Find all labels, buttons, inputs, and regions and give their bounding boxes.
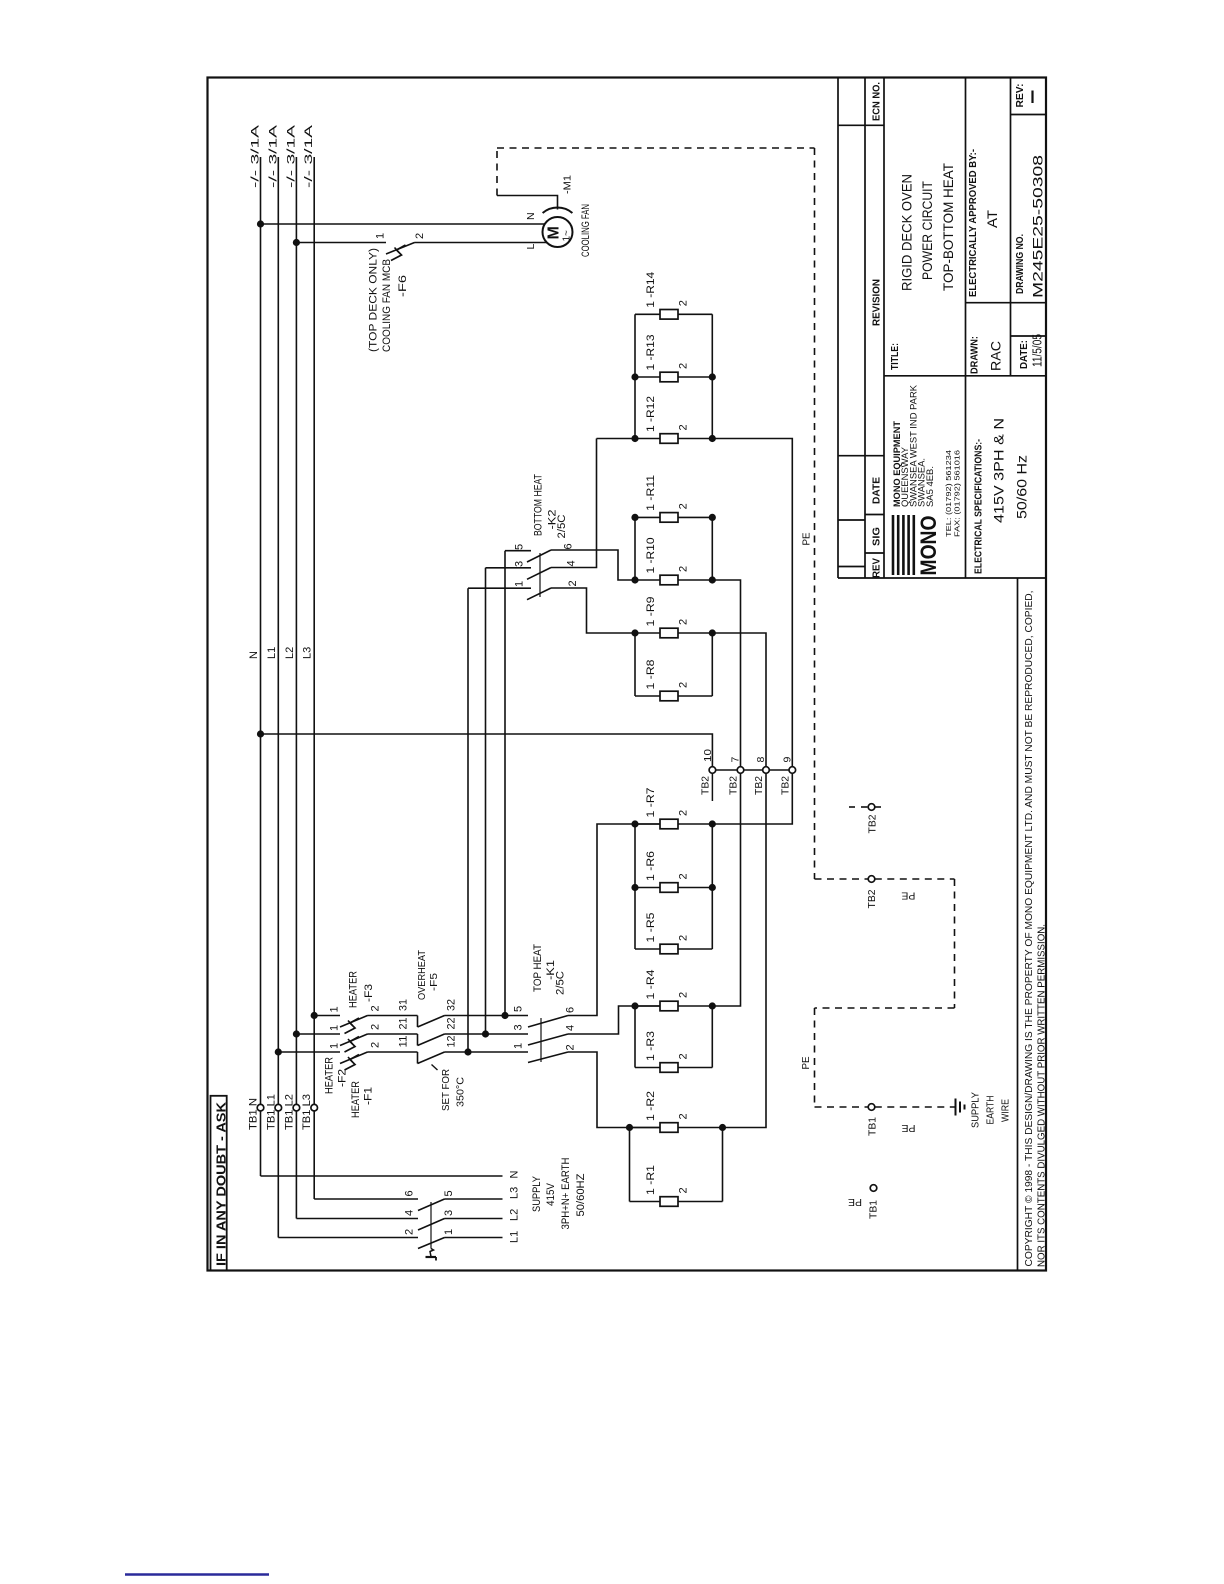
junction on N for fan	[257, 220, 264, 227]
F5 set-point leader line	[432, 1065, 438, 1071]
svg-text:2: 2	[567, 580, 579, 586]
K2 blade 3-4	[527, 568, 551, 580]
wire MCB F6 to fan	[415, 242, 547, 244]
svg-text:31: 31	[398, 999, 410, 1011]
svg-text:1: 1	[329, 1025, 341, 1031]
terminal TB2 7	[737, 767, 744, 774]
wire K1 2 to R2 bank	[568, 1052, 660, 1128]
MONO logo stripes	[892, 515, 895, 575]
wire R5-R7 right rail	[711, 824, 713, 949]
svg-text:2: 2	[370, 1005, 382, 1011]
wire L3 to isolator	[314, 1198, 418, 1200]
wire K2 2 to R9 bank	[551, 588, 635, 633]
svg-text:1 -R11: 1 -R11	[645, 475, 657, 511]
wire R10 bank output to TB2 7	[712, 580, 740, 767]
wire MCB F3 input	[314, 1015, 340, 1017]
drawing-no/date divider	[1011, 335, 1047, 337]
svg-text:9: 9	[782, 757, 794, 763]
svg-text:2: 2	[370, 1042, 382, 1048]
wire R12-R14 left rail	[634, 314, 636, 438]
svg-text:2: 2	[678, 810, 690, 816]
svg-text:3: 3	[513, 1024, 525, 1030]
overheat F5 pole step 11	[417, 1052, 419, 1064]
wire R7 bank output to TB2 9	[712, 773, 792, 824]
MCB F6 blade	[386, 243, 415, 255]
svg-text:1 -R10: 1 -R10	[645, 538, 657, 574]
terminal TB1 L1	[275, 1104, 282, 1111]
svg-text:TB1: TB1	[868, 1200, 880, 1219]
svg-text:M: M	[546, 226, 563, 239]
resistor R5	[660, 944, 678, 954]
svg-text:4: 4	[404, 1210, 416, 1216]
title block left edge	[837, 78, 839, 579]
svg-text:12: 12	[446, 1036, 458, 1048]
junction R6 left	[631, 884, 638, 891]
svg-text:HEATER: HEATER	[350, 1081, 362, 1118]
junction N to TB2 10	[257, 730, 264, 737]
title/spec column divider	[965, 78, 967, 579]
svg-text:L: L	[525, 244, 537, 250]
wire R1 row	[630, 1201, 661, 1203]
overheat F5 blade 21-22	[418, 1034, 445, 1046]
svg-text:EARTH: EARTH	[985, 1096, 997, 1125]
svg-text:N: N	[248, 651, 260, 659]
junction R12 right	[709, 435, 716, 442]
svg-text:PE: PE	[801, 533, 813, 546]
svg-text:-F3: -F3	[363, 984, 375, 1002]
svg-text:2: 2	[370, 1024, 382, 1030]
MCB F1 blade	[340, 1052, 368, 1064]
resistor R11	[660, 513, 678, 523]
revision row tick 1	[838, 455, 884, 457]
MCB F3 actuator symbol	[345, 1018, 360, 1034]
overheat F5 blade 11-12	[418, 1052, 445, 1064]
svg-text:ELECTRICAL SPECIFICATIONS:-: ELECTRICAL SPECIFICATIONS:-	[973, 439, 985, 574]
svg-text:TB1 L2: TB1 L2	[283, 1094, 295, 1130]
junction tap to K2 3	[482, 1030, 489, 1037]
contactor K2 pole 3 wire	[486, 567, 532, 569]
PE dashed right drop	[814, 148, 816, 879]
svg-text:11/5/05: 11/5/05	[1030, 334, 1045, 367]
svg-text:5: 5	[513, 1006, 525, 1012]
wire supply line L2	[295, 157, 297, 1219]
svg-text:SET FOR: SET FOR	[440, 1069, 452, 1111]
wire R2 bank output to TB2 8	[723, 773, 767, 1127]
junction R2 right	[719, 1124, 726, 1131]
wire neutral run to TB2 10	[261, 734, 713, 767]
svg-text:32: 32	[446, 999, 458, 1011]
svg-text:10: 10	[702, 749, 714, 762]
junction MCB F2 input	[293, 1030, 300, 1037]
title block bottom line	[838, 577, 1046, 579]
svg-text:-F6: -F6	[397, 275, 409, 297]
wire F5 22 to K1 3	[445, 1033, 529, 1035]
junction R10 left	[631, 576, 638, 583]
svg-text:2: 2	[678, 424, 690, 430]
terminal TB2 8	[763, 767, 770, 774]
svg-text:1 -R4: 1 -R4	[645, 970, 657, 1000]
svg-text:1 -R6: 1 -R6	[645, 851, 657, 881]
wire R10-R11 right rail	[711, 517, 713, 580]
junction R12 left	[631, 435, 638, 442]
wire MCB F3 output	[368, 1015, 418, 1017]
junction R4 right	[709, 1002, 716, 1009]
svg-text:-F2: -F2	[337, 1069, 349, 1087]
svg-text:3: 3	[443, 1210, 455, 1216]
svg-text:4: 4	[565, 1025, 577, 1031]
wire R12 bank output to TB2 9	[597, 438, 636, 440]
resistor R12	[660, 434, 678, 444]
svg-text:3PH+N+ EARTH: 3PH+N+ EARTH	[560, 1157, 572, 1229]
junction R13 left	[631, 373, 638, 380]
wire R14 row	[635, 313, 660, 315]
isolator mechanical link	[430, 1202, 432, 1249]
floating terminal TB2 PE stub	[849, 806, 855, 808]
svg-text:HEATER: HEATER	[324, 1057, 336, 1094]
isolator handle	[430, 1249, 434, 1257]
wire R1-R2 right rail	[722, 1128, 724, 1202]
isolator blade 2-1	[418, 1238, 445, 1249]
revision row tick 3	[838, 566, 865, 568]
MCB F1 actuator symbol	[345, 1055, 360, 1071]
svg-text:DATE:: DATE:	[1018, 340, 1030, 369]
wire R10-R11 left rail	[634, 517, 636, 580]
svg-text:N: N	[509, 1171, 521, 1179]
PE dashed down segment	[954, 879, 956, 1008]
PE dashed to supply earth	[875, 1106, 956, 1108]
svg-text:ELECTRICALLY APPROVED BY:-: ELECTRICALLY APPROVED BY:-	[967, 149, 979, 297]
isolator supply wire 5	[445, 1198, 503, 1200]
svg-text:POWER CIRCUIT: POWER CIRCUIT	[919, 181, 935, 280]
resistor R8	[660, 691, 678, 701]
junction R11 right	[709, 514, 716, 521]
junction tap to K2 5	[501, 1012, 508, 1019]
svg-text:2: 2	[678, 300, 690, 306]
svg-text:2/5C: 2/5C	[556, 514, 568, 538]
wire MCB F2 input	[296, 1033, 340, 1035]
overheat F5 pole step 21	[417, 1034, 419, 1046]
svg-text:L1: L1	[509, 1231, 521, 1243]
IF IN ANY DOUBT box	[211, 1096, 227, 1271]
svg-text:2: 2	[678, 1113, 690, 1119]
svg-text:2/5C: 2/5C	[555, 971, 567, 995]
overheat F5 blade 31-32	[418, 1016, 445, 1028]
K2 blade 1-2	[527, 588, 551, 600]
svg-text:REV:: REV:	[1014, 84, 1026, 108]
svg-text:DRAWING NO.: DRAWING NO.	[1014, 234, 1026, 294]
resistor R6	[660, 883, 678, 893]
PE dashed to TB1 PE terminal	[815, 1106, 869, 1108]
svg-text:2: 2	[414, 233, 426, 239]
svg-text:1 -R2: 1 -R2	[645, 1091, 657, 1121]
svg-text:4: 4	[566, 560, 578, 566]
svg-text:COOLING FAN: COOLING FAN	[580, 204, 592, 257]
svg-text:L1: L1	[266, 647, 278, 659]
svg-text:HEATER: HEATER	[348, 971, 360, 1008]
resistor R14	[660, 310, 678, 320]
isolator supply wire 1	[445, 1237, 503, 1239]
svg-text:COOLING FAN MCB: COOLING FAN MCB	[381, 259, 393, 352]
wire R3-R4 right rail	[711, 1006, 713, 1068]
resistor R9	[660, 628, 678, 638]
svg-text:1: 1	[329, 1043, 341, 1049]
svg-text:L3: L3	[302, 647, 314, 659]
PE dashed to TB2 PE terminal	[815, 878, 869, 880]
svg-text:SIG: SIG	[871, 527, 883, 546]
svg-text:L3: L3	[509, 1187, 521, 1199]
wire fan neutral	[261, 223, 546, 225]
revision row tick 2	[838, 519, 865, 521]
svg-text:TB2: TB2	[866, 889, 878, 908]
blue artifact line bottom of page	[125, 1573, 269, 1575]
svg-text:1: 1	[443, 1229, 455, 1235]
svg-text:N: N	[525, 212, 537, 220]
svg-text:1: 1	[513, 1043, 525, 1049]
svg-text:WIRE: WIRE	[1000, 1099, 1012, 1122]
overheat F5 pole step 31	[417, 1016, 419, 1028]
MCB F3 blade	[340, 1016, 368, 1028]
wire R5 row	[635, 948, 660, 950]
isolator supply wire 3	[445, 1218, 503, 1220]
svg-text:-M1: -M1	[562, 175, 574, 194]
svg-text:PE: PE	[848, 1196, 862, 1208]
junction tap to K2 1	[464, 1048, 471, 1055]
wire MCB F1 input	[278, 1051, 340, 1053]
wire R9 bank output to TB2 8	[712, 633, 766, 767]
wire R1-R2 left rail	[629, 1128, 631, 1202]
SIG/REV divider	[865, 552, 884, 554]
svg-text:2: 2	[678, 566, 690, 572]
junction R10 right	[709, 576, 716, 583]
approved/drawn divider	[966, 302, 1047, 304]
svg-text:DATE: DATE	[871, 477, 883, 504]
svg-text:TB2: TB2	[780, 776, 792, 795]
svg-text:PE: PE	[800, 1057, 812, 1070]
svg-text:415V: 415V	[545, 1182, 557, 1206]
svg-text:2: 2	[678, 619, 690, 625]
svg-text:1 -R3: 1 -R3	[645, 1031, 657, 1061]
title cell bottom line	[884, 375, 1046, 377]
svg-text:350°C: 350°C	[455, 1077, 467, 1107]
svg-text:1: 1	[514, 581, 526, 587]
revision header column left line	[864, 78, 866, 579]
svg-text:2: 2	[678, 992, 690, 998]
resistor R4	[660, 1001, 678, 1011]
wire R3 row	[635, 1067, 660, 1069]
wire supply line L3	[313, 157, 315, 1199]
wire R12 row	[635, 438, 660, 440]
svg-text:PE: PE	[901, 889, 915, 901]
svg-text:REVISION: REVISION	[871, 279, 883, 326]
svg-text:21: 21	[398, 1018, 410, 1030]
svg-text:RIGID DECK OVEN: RIGID DECK OVEN	[899, 174, 915, 291]
PE dashed return run	[815, 1007, 955, 1009]
svg-text:415V 3PH & N: 415V 3PH & N	[991, 418, 1007, 523]
wire N to supply	[261, 1175, 503, 1177]
svg-text:MONO: MONO	[916, 516, 941, 576]
wire riser to K2 pole 5	[504, 551, 506, 1016]
wire R9 row	[635, 632, 660, 634]
wire K1 6 riser to R7 bank	[568, 824, 660, 1016]
wire R6 row	[635, 887, 660, 889]
wire fan live to MCB F6	[296, 242, 386, 244]
junction on L2 for fan	[293, 239, 300, 246]
svg-text:2: 2	[678, 935, 690, 941]
motor M1 cooling fan circle	[543, 217, 573, 247]
svg-text:2: 2	[678, 1187, 690, 1193]
MCB F2 actuator symbol	[345, 1037, 360, 1053]
wire R13 row	[635, 376, 660, 378]
svg-text:TOP-BOTTOM HEAT: TOP-BOTTOM HEAT	[940, 163, 956, 291]
drawing outer border	[208, 78, 1047, 1271]
wire R11 row	[635, 516, 660, 518]
floating terminal TB1 PE	[870, 1185, 877, 1192]
svg-text:TB1 N: TB1 N	[248, 1098, 260, 1130]
TB2 10 under-stub	[711, 773, 713, 801]
wire R8-R9 left rail	[634, 633, 636, 696]
terminal TB2 10	[709, 767, 716, 774]
earth symbol supply earth	[955, 1099, 957, 1116]
svg-text:SUPPLY: SUPPLY	[970, 1092, 982, 1128]
wire riser to K2 pole 1	[467, 588, 469, 1052]
svg-text:1 -R8: 1 -R8	[645, 660, 657, 690]
DATE/SIG divider	[865, 514, 884, 516]
wire riser to K2 pole 3	[485, 568, 487, 1034]
wire R8-R9 right rail	[711, 633, 713, 696]
svg-text:22: 22	[446, 1018, 458, 1030]
svg-text:1 -R12: 1 -R12	[645, 396, 657, 432]
svg-text:L2: L2	[284, 647, 296, 659]
resistor R7	[660, 819, 678, 829]
PE dashed top run	[497, 147, 815, 149]
resistor R2	[660, 1123, 678, 1133]
resistor R13	[660, 372, 678, 382]
svg-text:2: 2	[678, 363, 690, 369]
junction R13 right	[709, 373, 716, 380]
svg-text:11: 11	[398, 1036, 410, 1048]
wire K1 4 to R4 bank	[568, 1006, 660, 1034]
svg-text:-F5: -F5	[428, 973, 440, 991]
svg-text:1 -R9: 1 -R9	[645, 597, 657, 627]
junction R6 right	[709, 884, 716, 891]
wire R4 bank output to TB2 7	[712, 773, 740, 1006]
svg-text:L2: L2	[509, 1209, 521, 1221]
wire MCB F2 output	[368, 1033, 418, 1035]
svg-text:RAC: RAC	[988, 341, 1004, 371]
wire R4 row	[635, 1005, 660, 1007]
terminal TB1 PE on dashed line	[868, 1104, 875, 1111]
K2 blade 5-6	[527, 550, 551, 562]
svg-text:REV: REV	[871, 558, 883, 578]
svg-text:-/- 3/1A: -/- 3/1A	[285, 124, 297, 188]
resistor R10	[660, 575, 678, 585]
svg-text:1: 1	[375, 233, 387, 239]
svg-text:1: 1	[329, 1006, 341, 1012]
svg-text:1~: 1~	[562, 230, 573, 242]
svg-text:FAX: (01792) 561016: FAX: (01792) 561016	[953, 450, 962, 537]
svg-text:TOP HEAT: TOP HEAT	[532, 944, 544, 992]
TB2 terminal strip line	[712, 769, 792, 771]
wire R7 row	[635, 823, 660, 825]
wire R3-R4 left rail	[634, 1006, 636, 1068]
svg-text:OVERHEAT: OVERHEAT	[416, 949, 428, 1000]
junction R9 right	[709, 629, 716, 636]
terminal TB2 PE on dashed line	[868, 876, 875, 883]
svg-text:-F1: -F1	[363, 1087, 375, 1105]
junction R7 right	[709, 820, 716, 827]
svg-text:TB1 L1: TB1 L1	[265, 1094, 277, 1130]
svg-text:8: 8	[755, 757, 767, 763]
K2 mechanical link	[539, 553, 541, 597]
MCB F2 blade	[340, 1034, 368, 1046]
PE dashed lower drop	[814, 1008, 816, 1107]
wire F5 32 to K1 5	[445, 1015, 529, 1017]
svg-text:-/- 3/1A: -/- 3/1A	[267, 124, 279, 188]
svg-text:M245E25-50308: M245E25-50308	[1031, 155, 1046, 298]
motor PE arc	[543, 208, 573, 213]
terminal TB1 L3	[311, 1104, 318, 1111]
svg-text:AT: AT	[984, 210, 1000, 228]
svg-text:6: 6	[404, 1190, 416, 1196]
svg-text:-/- 3/1A: -/- 3/1A	[250, 124, 262, 188]
svg-text:7: 7	[730, 757, 742, 763]
svg-text:6: 6	[563, 543, 575, 549]
svg-text:TB1 L3: TB1 L3	[301, 1094, 313, 1130]
svg-text:6: 6	[565, 1007, 577, 1013]
K1 mechanical link	[540, 1018, 542, 1062]
contactor K2 pole 5 wire	[505, 550, 531, 552]
svg-text:2: 2	[678, 503, 690, 509]
wire R12-R14 right rail	[711, 314, 713, 438]
svg-text:SUPPLY: SUPPLY	[531, 1175, 543, 1212]
svg-text:TB1: TB1	[867, 1117, 879, 1136]
wire R8 row	[635, 695, 660, 697]
terminal TB2 9	[789, 767, 796, 774]
svg-text:TB2: TB2	[867, 814, 879, 833]
terminal TB1 L2	[293, 1104, 300, 1111]
resistor R1	[660, 1197, 678, 1207]
junction R7 left	[631, 820, 638, 827]
junction R9 left	[631, 629, 638, 636]
junction R11 left	[631, 514, 638, 521]
svg-text:ECN NO.: ECN NO.	[871, 82, 883, 121]
K1 blade 5-6	[528, 1016, 568, 1028]
svg-text:2: 2	[404, 1229, 416, 1235]
ECN NO. cell bottom line	[838, 124, 884, 126]
svg-text:COPYRIGHT © 1998 - THIS DESIGN: COPYRIGHT © 1998 - THIS DESIGN/DRAWING I…	[1024, 591, 1035, 1267]
svg-text:50/60HZ: 50/60HZ	[575, 1173, 587, 1216]
date column divider	[1010, 78, 1012, 376]
svg-text:DRAWN:: DRAWN:	[969, 336, 981, 374]
MCB F6 actuator symbol	[391, 245, 406, 261]
terminal TB1 N	[257, 1104, 264, 1111]
REV box bottom line	[1011, 114, 1047, 116]
svg-text:-/- 3/1A: -/- 3/1A	[303, 124, 315, 188]
svg-text:1 -R1: 1 -R1	[645, 1165, 657, 1195]
wire K2 6 to R10 bank	[551, 550, 635, 580]
svg-text:1 -R7: 1 -R7	[645, 788, 657, 818]
svg-text:NOR ITS CONTENTS DIVULGED WITH: NOR ITS CONTENTS DIVULGED WITHOUT PRIOR …	[1037, 924, 1048, 1267]
svg-text:5: 5	[443, 1190, 455, 1196]
wire R10 row	[635, 579, 660, 581]
svg-text:1 -R13: 1 -R13	[645, 335, 657, 371]
wire L2 to isolator	[296, 1218, 418, 1220]
wire MCB F1 output	[368, 1051, 418, 1053]
svg-text:IF IN ANY DOUBT - ASK: IF IN ANY DOUBT - ASK	[213, 1101, 228, 1266]
svg-text:3: 3	[514, 561, 526, 567]
K1 blade 3-4	[528, 1034, 568, 1045]
isolator blade 4-3	[418, 1219, 445, 1231]
